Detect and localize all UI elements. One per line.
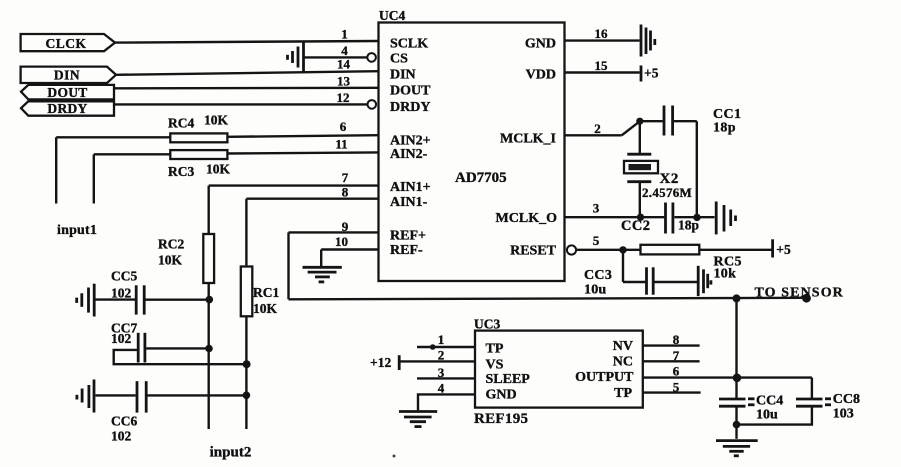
wire pin9 down to sensor line [287, 232, 289, 299]
pin bubble RESET (pin 5) [567, 245, 576, 254]
wire MCLK_I pin2 [565, 134, 622, 136]
svg-text:OUTPUT: OUTPUT [575, 370, 634, 385]
wire crystal bottom to MCLK_O net [639, 182, 641, 218]
wire CC6 right plate to RC1 column [148, 394, 247, 396]
svg-text:+12: +12 [370, 355, 391, 370]
svg-text:2.4576M: 2.4576M [642, 185, 692, 200]
svg-text:AIN1+: AIN1+ [390, 180, 431, 195]
svg-text:REF+: REF+ [390, 228, 426, 243]
wire CC1 right to branch [674, 120, 697, 122]
connector CLCK [21, 34, 115, 51]
capacitor CC8 103 [796, 392, 860, 421]
svg-text:RC4: RC4 [168, 116, 194, 131]
ground (UC3 GND) [399, 412, 437, 427]
svg-text:CC2: CC2 [621, 218, 650, 234]
svg-text:10u: 10u [584, 283, 606, 298]
wire REF+ pin9 [289, 231, 379, 233]
wire UC3 pin7 [643, 360, 700, 362]
svg-text:3: 3 [593, 201, 600, 216]
wire DOUT to UC4 pin13 [114, 87, 379, 90]
wire UC3 pin5 [643, 391, 701, 393]
node RC2/sensor junction [206, 296, 214, 304]
svg-text:GND: GND [486, 388, 517, 403]
svg-text:10K: 10K [206, 162, 231, 177]
wire RC3 right to AIN2- pin11 [227, 152, 378, 153]
svg-text:103: 103 [833, 406, 854, 421]
capacitor CC3 10u [584, 267, 653, 297]
wire CC8 branch top [811, 378, 813, 398]
svg-text:1: 1 [438, 332, 445, 347]
resistor RC3 10K [168, 150, 231, 179]
wire UC3 pin1 [417, 346, 475, 348]
wire CC3 right to ground [655, 281, 698, 283]
svg-text:18p: 18p [713, 120, 736, 135]
svg-text:+5: +5 [644, 66, 659, 81]
svg-text:DIN: DIN [54, 68, 80, 83]
node OUTPUT junction [733, 374, 742, 383]
svg-text:102: 102 [111, 331, 132, 346]
svg-text:6: 6 [340, 119, 347, 134]
svg-text:RESET: RESET [510, 243, 557, 258]
svg-text:10K: 10K [204, 113, 229, 128]
svg-text:10K: 10K [158, 253, 183, 268]
resistor RC5 10k [641, 245, 742, 282]
wire GND pin16 [565, 39, 640, 41]
connector DRDY [21, 101, 114, 116]
svg-text:DOUT: DOUT [390, 83, 431, 98]
svg-text:GND: GND [525, 36, 556, 51]
svg-text:NC: NC [613, 355, 633, 370]
wire RC1 bottom column to input2 [245, 316, 247, 429]
node crystal/MCLK_O junction [637, 214, 644, 221]
wire UC3 pin3 [417, 377, 475, 379]
connector DIN [21, 67, 116, 83]
capacitor CC1 18p [664, 106, 741, 136]
wire REF+ to sensor node [289, 298, 807, 300]
scan speck [393, 455, 396, 458]
node MCLK_I junction [636, 118, 643, 125]
svg-text:NV: NV [613, 339, 633, 354]
svg-text:DRDY: DRDY [390, 100, 430, 115]
svg-text:REF-: REF- [390, 243, 423, 258]
resistor RC1 10K [241, 267, 280, 317]
node CC7/RC2 junction [205, 345, 213, 353]
svg-text:DIN: DIN [390, 68, 416, 83]
svg-text:13: 13 [337, 73, 351, 88]
wire DIN to UC4 pin14 [116, 71, 379, 75]
capacitor CC2 18p [621, 203, 699, 235]
svg-text:CLCK: CLCK [45, 36, 86, 51]
wire input1 right column [93, 154, 95, 203]
svg-text:VDD: VDD [526, 68, 556, 83]
svg-text:CS: CS [390, 51, 408, 66]
wire CC6 to ground [96, 394, 136, 396]
svg-text:TP: TP [486, 342, 504, 357]
wire CC8 branch bottom [737, 406, 812, 424]
ground (CC5, left-pointing) [77, 284, 95, 317]
wire AIN1+ pin7 [209, 184, 379, 186]
svg-text:RC2: RC2 [158, 237, 184, 252]
wire CC4 bottom [735, 406, 737, 439]
wire VDD pin15 [565, 71, 640, 73]
power +5 (VDD) [641, 66, 659, 82]
svg-text:16: 16 [595, 26, 609, 41]
wire CC7 left plate jog [114, 350, 247, 364]
ground (CC4/CC8) [716, 441, 758, 456]
resistor RC2 10K [158, 234, 214, 283]
wire input1 left column [55, 137, 57, 203]
svg-text:TP: TP [614, 386, 632, 401]
svg-text:102: 102 [111, 286, 132, 301]
svg-text:DRDY: DRDY [47, 101, 87, 116]
wire UC3 pin6 OUTPUT [643, 376, 812, 378]
wire RC4 right to AIN2+ pin6 [227, 135, 378, 137]
wire DRDY to UC4 pin12 bubble [114, 103, 368, 105]
ground (CC2, right-pointing) [716, 202, 735, 235]
svg-text:12: 12 [337, 90, 350, 105]
svg-text:AIN1-: AIN1- [390, 195, 428, 210]
wire UC3 pin2 [400, 360, 475, 362]
wire pin7 down to RC2 [207, 186, 209, 234]
wire UC3 pin8 [643, 344, 700, 346]
svg-text:7: 7 [342, 170, 349, 185]
svg-text:10u: 10u [756, 408, 778, 423]
wire sensor column down [735, 298, 737, 398]
node TO SENSOR junction [733, 294, 741, 302]
pin bubble CS (pin 4) [367, 53, 376, 62]
ground (CC6, left-pointing) [77, 380, 94, 413]
svg-text:5: 5 [593, 233, 600, 248]
wire UC3 pin4 [418, 394, 475, 410]
capacitor CC7 102 [111, 321, 145, 363]
wire node down to crystal [639, 121, 641, 154]
ground (pin16, right-pointing) [641, 25, 655, 57]
capacitor CC6 102 [111, 381, 146, 443]
connector DOUT [21, 85, 114, 100]
svg-text:UC4: UC4 [379, 8, 405, 23]
wire MCLK_I diagonal kink [622, 121, 640, 135]
wire RC5 to +5 [699, 249, 771, 251]
wire MCLK_O pin3 to CC2 [565, 216, 665, 218]
svg-text:CC3: CC3 [584, 268, 612, 283]
op-amp / ADC IC UC4 AD7705 body [379, 8, 565, 281]
svg-text:6: 6 [673, 363, 680, 378]
pin bubble DRDY (pin 12) [368, 100, 377, 109]
svg-text:CC4: CC4 [756, 394, 783, 409]
svg-text:TO SENSOR: TO SENSOR [755, 285, 844, 300]
capacitor CC5 102 [111, 269, 144, 315]
svg-text:VS: VS [486, 357, 504, 372]
svg-text:UC3: UC3 [474, 317, 500, 332]
wire CC5 to ground [96, 298, 136, 300]
wire CC1 branch down to MCLK_O net [696, 121, 698, 217]
svg-text:REF195: REF195 [474, 411, 528, 427]
node TO SENSOR end [802, 294, 811, 303]
wire CLCK to UC4 pin1 SCLK [115, 41, 379, 43]
svg-text:CC6: CC6 [111, 414, 137, 429]
wire to CC3 left plate [623, 281, 646, 283]
svg-text:input2: input2 [210, 445, 252, 461]
wire pin10 down to ground [320, 250, 322, 267]
power +12 [370, 355, 399, 370]
svg-text:MCLK_I: MCLK_I [500, 132, 556, 147]
wire RC3 left to input1 column [94, 153, 171, 155]
svg-text:+5: +5 [776, 242, 791, 257]
power +5 (RESET pullup) [773, 239, 791, 257]
wire node to CC1 [640, 120, 663, 122]
svg-text:10K: 10K [253, 301, 278, 316]
wire AIN1- pin8 [246, 197, 378, 199]
voltage reference IC UC3 REF195 body [474, 317, 643, 427]
wire sensor net long line [146, 299, 210, 301]
wire CS stub [304, 56, 368, 58]
svg-text:AD7705: AD7705 [455, 170, 507, 186]
svg-text:10k: 10k [714, 267, 737, 282]
node CC4 bottom junction [733, 421, 741, 429]
svg-text:SLEEP: SLEEP [486, 372, 531, 387]
svg-text:1: 1 [341, 27, 348, 42]
resistor RC4 10K [168, 113, 229, 143]
svg-text:8: 8 [342, 185, 349, 200]
wire RESET to junction [576, 249, 641, 251]
node RESET junction [619, 246, 626, 253]
wire REF- pin10 [321, 248, 378, 250]
ground (CS pin, left-pointing) [288, 42, 304, 72]
svg-text:MCLK_O: MCLK_O [496, 211, 558, 226]
ground (CC3, right-pointing) [698, 266, 711, 296]
svg-text:15: 15 [595, 58, 609, 73]
svg-text:AIN2-: AIN2- [390, 147, 428, 162]
wire pin8 down to RC1 [245, 199, 247, 266]
svg-text:DOUT: DOUT [47, 85, 87, 100]
svg-text:SCLK: SCLK [390, 36, 428, 51]
capacitor CC4 10u [719, 394, 783, 423]
svg-text:RC1: RC1 [253, 285, 279, 300]
wire CC2 right to ground [675, 216, 715, 218]
node on UC3 pin1 wire [430, 344, 436, 350]
wire RESET node down to CC3 [622, 250, 624, 282]
ground (REF-) [303, 267, 342, 282]
crystal X2 2.4576M [624, 154, 692, 200]
wire RC2 bottom column to input2 [207, 283, 209, 429]
svg-text:14: 14 [337, 57, 351, 72]
svg-text:11: 11 [335, 137, 347, 152]
svg-text:RC3: RC3 [168, 164, 194, 179]
node CC6/RC1 junction [243, 392, 251, 400]
svg-text:102: 102 [111, 429, 132, 444]
node CC1 branch junction [693, 214, 700, 221]
wire RC4 left to input1 column [56, 136, 170, 138]
svg-text:10: 10 [335, 234, 348, 249]
svg-text:CC5: CC5 [111, 269, 137, 284]
wire CC7 right plate to RC2 column [146, 347, 209, 349]
node CC7 jog/RC1 junction [243, 360, 251, 368]
svg-text:2: 2 [594, 121, 601, 136]
svg-text:input1: input1 [57, 223, 97, 238]
svg-text:CC8: CC8 [833, 392, 860, 407]
